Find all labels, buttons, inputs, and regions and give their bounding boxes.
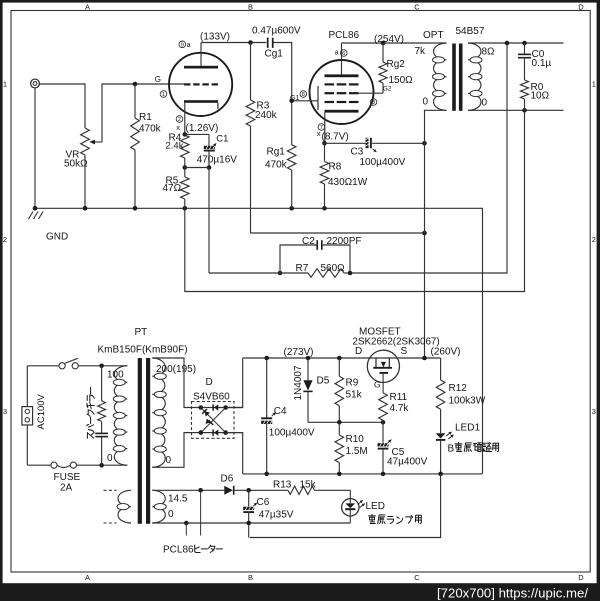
svg-text:47Ω: 47Ω	[163, 183, 182, 194]
label PCL86 heater	[163, 545, 222, 556]
svg-text:560Ω: 560Ω	[321, 263, 346, 274]
svg-text:430Ω1W: 430Ω1W	[328, 177, 368, 188]
svg-text:4.7k: 4.7k	[390, 403, 410, 414]
svg-text:S4VB60: S4VB60	[193, 392, 230, 403]
svg-text:R12: R12	[449, 383, 468, 394]
node C6 top	[246, 488, 251, 493]
wire heater 14.5V	[152, 489, 224, 491]
svg-text:AC100V: AC100V	[36, 393, 47, 429]
node secondary bottom / R0	[522, 108, 527, 113]
capacitor C4 100u400V	[261, 356, 315, 477]
triode half of PCL86 V1a	[169, 43, 232, 135]
ground bus	[35, 208, 483, 474]
bridge rectifier D S4VB60	[184, 402, 243, 439]
svg-text:100: 100	[107, 370, 124, 381]
wire bridge plus to 273V rail	[226, 358, 243, 408]
PT heater winding 14.5V	[152, 490, 188, 523]
output transformer OPT 54B57	[415, 26, 496, 111]
wire feedback from cathode node down	[208, 168, 210, 274]
label B power check (kanji)	[448, 443, 499, 455]
capacitor C3 100u400V	[325, 138, 425, 168]
svg-text:D6: D6	[221, 474, 234, 485]
svg-text:50kΩ: 50kΩ	[64, 159, 88, 170]
svg-text:1: 1	[162, 92, 165, 98]
svg-text:150Ω: 150Ω	[389, 75, 414, 86]
svg-text:R10: R10	[346, 434, 365, 445]
node grid1/Rg1 junction	[289, 99, 294, 104]
svg-text:10Ω: 10Ω	[531, 91, 550, 102]
label spark killer (katakana vertical)	[87, 387, 95, 438]
node R11/C5	[381, 420, 386, 425]
resistor R13 15k	[273, 479, 350, 494]
svg-text:R7: R7	[296, 263, 309, 274]
svg-text:PT: PT	[135, 327, 148, 338]
svg-text:Cg1: Cg1	[265, 49, 284, 60]
svg-text:2: 2	[592, 235, 596, 244]
wire secondary top to bridge	[152, 358, 242, 408]
svg-text:1.5M: 1.5M	[346, 446, 368, 457]
svg-text:KmB150F(KmB90F): KmB150F(KmB90F)	[98, 345, 188, 356]
wire VR wiper to grid	[102, 84, 184, 142]
svg-text:54B57: 54B57	[456, 26, 485, 37]
svg-text:A: A	[85, 2, 90, 11]
svg-text:0: 0	[423, 97, 429, 108]
svg-text:G: G	[374, 380, 381, 390]
svg-text:C: C	[414, 2, 420, 11]
svg-text:0: 0	[166, 455, 172, 466]
svg-text:200(195): 200(195)	[156, 364, 196, 375]
svg-text:470k: 470k	[139, 124, 162, 135]
capacitor C5 47u400V	[378, 422, 428, 476]
svg-text:x: x	[176, 123, 180, 132]
svg-text:3: 3	[592, 407, 596, 416]
wire heater 0V	[152, 522, 350, 524]
wire heater ground link	[250, 474, 441, 538]
node spark killer top	[99, 364, 104, 369]
svg-text:(1.26V): (1.26V)	[186, 123, 219, 134]
svg-text:PCL86: PCL86	[163, 545, 194, 556]
svg-text:51k: 51k	[346, 390, 363, 401]
PT primary winding 100V	[107, 366, 127, 465]
PT core	[138, 358, 151, 524]
svg-text:(254V): (254V)	[374, 34, 404, 45]
capacitor Cg1 0.47u600V	[252, 26, 301, 60]
svg-text:OPT: OPT	[423, 30, 444, 41]
svg-text:C1: C1	[216, 133, 228, 144]
node triode cathode (1.26V)	[183, 132, 188, 137]
svg-text:14.5: 14.5	[168, 494, 188, 505]
svg-text:B: B	[448, 444, 455, 455]
svg-text:3: 3	[3, 407, 7, 416]
resistor R7 560ohm	[280, 263, 350, 278]
LED1 B+ indicator	[436, 423, 481, 474]
svg-text:7k: 7k	[415, 46, 427, 57]
wire PSU 0V rail	[243, 473, 483, 475]
diode D6	[221, 474, 289, 495]
AC inlet plug AC100V	[22, 366, 47, 465]
svg-text:B: B	[248, 2, 253, 11]
svg-text:a: a	[187, 42, 191, 49]
node spark killer bottom	[99, 463, 104, 468]
node R9/R10	[337, 420, 342, 425]
input jack J1	[31, 79, 40, 88]
svg-text:R13: R13	[273, 479, 292, 490]
pin 7 cathode marker	[317, 124, 325, 138]
svg-text:Rg1: Rg1	[267, 147, 286, 158]
node MOSFET source 260V	[422, 356, 427, 361]
svg-text:0: 0	[107, 453, 113, 464]
svg-text:1: 1	[592, 80, 596, 89]
capacitor C1 470u16V	[185, 133, 237, 167]
svg-text:G2: G2	[383, 86, 392, 93]
wire filter node	[308, 421, 383, 423]
resistor R3 240k plate load	[246, 43, 277, 234]
svg-text:R11: R11	[390, 392, 408, 403]
wire OPT primary 0 to B+ rail	[425, 110, 447, 358]
svg-text:0.1µ: 0.1µ	[532, 58, 552, 69]
label pilot lamp purpose (kanji)	[369, 515, 422, 524]
svg-text:FUSE: FUSE	[54, 472, 81, 483]
spark killer RC snubber	[95, 366, 108, 465]
pin 8 grid1 marker	[290, 91, 307, 102]
wire jack to VR top	[39, 84, 85, 128]
svg-text:100µ400V: 100µ400V	[360, 157, 406, 168]
svg-text:G: G	[155, 75, 161, 84]
svg-text:8Ω: 8Ω	[482, 47, 496, 58]
svg-text:100µ400V: 100µ400V	[269, 427, 315, 438]
resistor R8 430ohm1W cathode	[320, 143, 368, 208]
svg-text:470µ16V: 470µ16V	[197, 154, 238, 165]
svg-text:0: 0	[168, 509, 174, 520]
svg-text:2200PF: 2200PF	[327, 236, 362, 247]
node R3/B+ rail	[422, 231, 427, 236]
wire R3 to B+ rail	[251, 232, 425, 234]
power switch SW	[27, 358, 127, 369]
pentode half of PCL86 V1b	[292, 43, 383, 143]
pin 9 anode marker	[179, 41, 191, 49]
node R4/R5/C1 junction	[183, 165, 212, 170]
svg-text:S: S	[401, 346, 408, 357]
svg-text:1: 1	[3, 80, 7, 89]
svg-text:A: A	[85, 573, 90, 582]
node feedback right	[348, 271, 353, 276]
capacitor C0 0.1u zobel	[518, 43, 551, 80]
svg-text:2: 2	[3, 235, 7, 244]
resistor R12 100k3W	[436, 358, 485, 433]
PT unused winding (dashed leads)	[104, 490, 132, 523]
resistor R0 10ohm zobel	[521, 80, 550, 110]
svg-text:C3: C3	[351, 147, 364, 158]
svg-text:C2: C2	[302, 236, 315, 247]
svg-text:3: 3	[372, 100, 375, 106]
svg-text:GND: GND	[46, 232, 68, 243]
wire feedback from secondary	[350, 43, 507, 273]
svg-text:0: 0	[482, 98, 488, 109]
MOSFET Q1 2SK2662 ripple filter	[355, 346, 408, 393]
wire jack ground stem	[34, 88, 36, 208]
resistor Rg2 150ohm screen	[379, 43, 413, 93]
resistor R9 51k	[335, 356, 363, 423]
node pentode cathode (8.7V)	[322, 141, 327, 146]
svg-text:LED1: LED1	[455, 423, 480, 434]
svg-text:9: 9	[181, 42, 184, 48]
pin 1 grid marker	[155, 75, 167, 98]
svg-text:15k: 15k	[300, 479, 317, 490]
resistor R11 4.7k gate	[379, 392, 410, 422]
node C3/B+ rail	[422, 141, 427, 146]
node grid wire junction	[133, 82, 138, 87]
svg-text:C: C	[414, 573, 420, 582]
node secondary 8ohm/feedback	[505, 41, 510, 46]
wire feedback to network	[209, 272, 280, 274]
wire OPT secondary bottom	[468, 109, 564, 111]
ground bus junctions	[33, 206, 327, 211]
svg-text:B: B	[248, 573, 253, 582]
svg-text:D5: D5	[317, 376, 330, 387]
node LED1 / heater ground link	[438, 472, 443, 477]
svg-text:0.47µ600V: 0.47µ600V	[252, 26, 301, 37]
svg-text:Rg2: Rg2	[387, 59, 406, 70]
svg-text:2A: 2A	[60, 483, 73, 494]
resistor R5 47ohm	[163, 168, 190, 209]
svg-text:R1: R1	[139, 112, 152, 123]
svg-text:(133V): (133V)	[200, 32, 230, 43]
wire OPT secondary top	[468, 42, 564, 44]
node feedback left	[278, 271, 283, 276]
capacitor C2 2200PF	[280, 236, 362, 273]
resistor R10 1.5M	[335, 422, 368, 476]
svg-text:(260V): (260V)	[431, 347, 461, 358]
LED pilot lamp	[342, 490, 385, 523]
node heater 0 taps	[184, 521, 251, 526]
node secondary top / C0	[522, 41, 527, 46]
svg-text:240k: 240k	[255, 110, 278, 121]
svg-text:(8.7V): (8.7V)	[322, 132, 349, 143]
leader lines PCL86 heater	[186, 490, 200, 535]
svg-text:C4: C4	[274, 406, 287, 417]
svg-text:D: D	[355, 346, 362, 357]
wire Cg1 to grid1 node	[274, 43, 292, 145]
svg-text:8: 8	[302, 92, 305, 98]
pin 2 cathode marker	[176, 116, 183, 132]
svg-text:[720x700] https://upic.me/: [720x700] https://upic.me/	[437, 586, 588, 601]
wire pentode plate to OPT	[342, 42, 447, 44]
svg-text:D: D	[578, 573, 584, 582]
node plate/Rg2/OPT (254V)	[381, 41, 386, 46]
svg-text:D: D	[206, 377, 213, 388]
svg-text:R8: R8	[329, 162, 342, 173]
pin 3 marker	[370, 99, 377, 106]
node heater tap label	[198, 488, 203, 493]
capacitor C6 47u35V	[243, 490, 294, 537]
diode D5 1N4007	[293, 356, 330, 423]
svg-text:PCL86: PCL86	[329, 30, 360, 41]
ground symbol GND	[29, 212, 69, 243]
potentiometer VR 50k	[64, 128, 102, 208]
fuse FUSE 2A	[27, 462, 127, 493]
wire secondary bottom to bridge	[152, 433, 242, 468]
resistor R4 2.4k	[166, 133, 190, 168]
svg-text:100k3W: 100k3W	[449, 396, 486, 407]
node plate/R3/Cg1	[248, 40, 253, 45]
svg-text:470k: 470k	[265, 160, 288, 171]
svg-text:D: D	[578, 2, 584, 11]
svg-text:1N4007: 1N4007	[293, 365, 304, 400]
svg-text:LED: LED	[366, 501, 385, 512]
svg-text:2.4k: 2.4k	[166, 141, 184, 152]
wire 273V rail	[243, 357, 441, 359]
svg-text:R9: R9	[346, 378, 359, 389]
svg-text:47µ35V: 47µ35V	[259, 509, 294, 520]
svg-text:x: x	[317, 129, 321, 138]
resistor R1 470k	[131, 84, 162, 208]
PT secondary winding 200(195)	[152, 358, 196, 467]
wire bridge minus to 0V rail	[226, 433, 243, 474]
wire ground rail to secondary 0	[185, 110, 525, 291]
wire triode plate node	[201, 42, 266, 44]
svg-text:a: a	[335, 49, 339, 56]
svg-text:6: 6	[342, 51, 345, 57]
svg-text:2SK2662(2SK3067): 2SK2662(2SK3067)	[353, 336, 440, 347]
svg-text:47µ400V: 47µ400V	[387, 456, 428, 467]
pin 6 anode marker	[335, 49, 347, 57]
resistor Rg1 470k	[265, 145, 296, 209]
svg-text:C6: C6	[257, 497, 270, 508]
